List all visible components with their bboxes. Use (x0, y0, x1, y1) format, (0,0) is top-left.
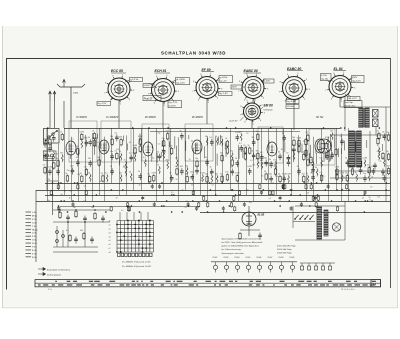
svg-text:5k: 5k (377, 145, 379, 147)
resistor R23 (162, 138, 165, 148)
svg-text:5k: 5k (67, 154, 69, 156)
capacitor C14 (115, 132, 119, 141)
parts table (35, 280, 381, 287)
svg-text:100: 100 (292, 137, 295, 139)
svg-text:30: 30 (219, 144, 221, 146)
resistor R37 (243, 145, 246, 155)
wire bus F (60, 206, 200, 208)
capacitor C18 (162, 146, 167, 155)
resistor R44 (278, 173, 281, 183)
callout V1 below (97, 97, 113, 106)
resistor R22 (152, 173, 157, 183)
callout V3 right (215, 76, 233, 83)
coil L27 (165, 160, 168, 170)
svg-text:100: 100 (190, 172, 193, 174)
resistor R35 (230, 157, 233, 167)
svg-text:Spannungen entstanden.: Spannungen entstanden. (222, 252, 245, 255)
IF transformer box T3 (142, 124, 169, 161)
coil L62 (330, 131, 333, 141)
svg-text:25p: 25p (43, 151, 46, 153)
wire midband verticals (52, 133, 382, 168)
capacitor C10 (88, 137, 92, 146)
svg-text:4f 460 kHz Folge: 4f 460 kHz Folge (277, 249, 292, 251)
svg-text:25p: 25p (345, 173, 348, 175)
svg-text:2k: 2k (48, 136, 50, 138)
svg-text:25p: 25p (162, 138, 165, 140)
svg-text:F 3a: F 3a (32, 236, 37, 238)
resistor R5 (60, 131, 63, 141)
svg-text:0,1: 0,1 (306, 132, 309, 134)
callout V1 right (125, 78, 143, 83)
svg-text:30: 30 (139, 184, 141, 186)
wire V6 drop (339, 98, 341, 107)
wire column verticals (48, 128, 349, 201)
svg-text:a1: a1 (109, 224, 111, 226)
svg-text:10n: 10n (249, 202, 252, 204)
svg-text:25p: 25p (303, 141, 306, 143)
wire bus A (45, 183, 390, 185)
svg-text:100: 100 (225, 172, 228, 174)
svg-text:50: 50 (205, 136, 207, 138)
resistor R28 (195, 158, 198, 168)
svg-text:g1 0,9Vtt: g1 0,9Vtt (176, 78, 185, 81)
label EL 84 (334, 67, 347, 71)
resistor R24 (165, 131, 168, 141)
callout V5 below b (286, 105, 299, 109)
resistor R1 (43, 165, 46, 175)
svg-text:50: 50 (243, 145, 245, 147)
svg-text:0,5: 0,5 (129, 142, 132, 144)
left legend arrow a (38, 268, 71, 272)
capacitor C36 (269, 174, 273, 183)
svg-text:2k: 2k (191, 185, 193, 187)
capacitor C34 (260, 152, 264, 161)
coil L18 (124, 159, 127, 169)
svg-text:30: 30 (370, 186, 372, 188)
coil L38 (220, 137, 223, 147)
wire bus D (36, 201, 390, 203)
resistor R9 (80, 173, 83, 183)
capacitor C6 (56, 166, 60, 175)
tube element U2 (99, 140, 109, 154)
capacitor C45 (311, 165, 315, 174)
table end cell (371, 280, 381, 287)
resistor R53 (335, 171, 338, 181)
svg-text:100: 100 (180, 166, 183, 168)
svg-text:0,5Vtt/cm: 0,5Vtt/cm (264, 108, 273, 111)
coil L50 (273, 159, 276, 169)
svg-text:50: 50 (52, 150, 54, 152)
svg-text:4,7Vtt: 4,7Vtt (321, 74, 327, 77)
switch matrix risers (120, 212, 148, 221)
wire bus C (45, 195, 390, 197)
coil L18 (124, 167, 129, 177)
table footnote (48, 289, 355, 291)
coil L70 (367, 172, 370, 182)
capacitor C19 (169, 173, 173, 182)
svg-text:5k: 5k (282, 133, 284, 135)
svg-text:0,25Vtt: 0,25Vtt (169, 104, 176, 107)
IF transformer box T4 (185, 124, 213, 161)
svg-text:2k: 2k (189, 159, 191, 161)
resistor R7 (76, 146, 79, 156)
svg-text:0,5M: 0,5M (297, 138, 302, 140)
resistor R46 (297, 138, 302, 148)
svg-text:0,5M: 0,5M (48, 166, 53, 168)
resistor R16 (115, 150, 118, 160)
svg-text:25p: 25p (158, 133, 161, 135)
callout V7 left (229, 117, 244, 122)
tube element U3 (143, 142, 153, 156)
resistor R6 (65, 173, 68, 183)
svg-text:5k: 5k (162, 150, 164, 152)
svg-text:5k: 5k (65, 173, 67, 175)
capacitor C49 (340, 136, 344, 145)
svg-text:E 3a: E 3a (32, 250, 37, 252)
callout V6 below (345, 94, 360, 101)
capacitor C20 (180, 131, 184, 140)
resistor R58 (367, 165, 370, 175)
svg-text:100: 100 (43, 139, 46, 141)
tube socket V4 EABC80 (238, 73, 269, 104)
svg-text:5k: 5k (220, 173, 222, 175)
svg-text:50: 50 (251, 150, 253, 152)
svg-text:0,8Vtt: 0,8Vtt (144, 84, 150, 87)
svg-text:50: 50 (382, 131, 384, 133)
grid note line 1 (121, 261, 151, 264)
svg-text:5k: 5k (311, 173, 313, 175)
coil L72 (377, 145, 380, 155)
svg-text:0,1: 0,1 (115, 132, 118, 134)
right resistor column (305, 137, 385, 176)
svg-text:30: 30 (281, 149, 283, 151)
svg-text:5k: 5k (88, 137, 90, 139)
svg-text:3f = 460kHz 3f Quarzab. 3a 3: 3f = 460kHz 3f Quarzab. 3a 31f (122, 265, 151, 268)
coil L69 (363, 158, 368, 168)
svg-text:bei 220V~ Netz (Volt) gemessen: bei 220V~ Netz (Volt) gemessen. Abtastwe… (222, 241, 264, 244)
svg-text:25p: 25p (342, 177, 345, 179)
svg-text:5k: 5k (200, 180, 202, 182)
resistor R48 (302, 151, 305, 161)
svg-text:100: 100 (119, 137, 122, 139)
capacitor C28 (235, 132, 240, 141)
coil L10 (88, 172, 91, 182)
coil L17 (119, 151, 122, 161)
coil L35 (205, 136, 208, 146)
svg-text:0,5: 0,5 (71, 138, 74, 140)
svg-text:30: 30 (85, 137, 87, 139)
coil L25 (157, 165, 160, 175)
section label ZF 468kHz (144, 116, 157, 119)
svg-text:SCHALTPLAN 3043 W/3D: SCHALTPLAN 3043 W/3D (161, 50, 226, 55)
svg-text:1M: 1M (251, 137, 254, 139)
resistor R12 (92, 131, 95, 141)
callout V2 below (168, 101, 182, 108)
resistor R45 (292, 137, 295, 147)
svg-text:Ug -6,2V: Ug -6,2V (348, 98, 357, 100)
switch matrix grid (109, 220, 154, 254)
svg-text:10n: 10n (269, 174, 272, 176)
resistor R4 (56, 158, 59, 168)
resistor R59 (377, 131, 380, 141)
capacitor C11 (88, 158, 92, 167)
resistor R30 (220, 173, 223, 183)
svg-text:0,5: 0,5 (269, 198, 272, 200)
svg-text:50: 50 (235, 158, 237, 160)
callout V6 left (321, 74, 335, 83)
svg-text:25p: 25p (363, 173, 366, 175)
resistor R20 (138, 143, 141, 153)
svg-text:5k: 5k (210, 167, 212, 169)
capacitor C13 (110, 166, 114, 175)
section label ZF 468kHz (191, 116, 204, 119)
svg-text:NF Teil: NF Teil (316, 117, 324, 119)
svg-text:2k: 2k (380, 161, 382, 163)
capacitor C54 (371, 166, 375, 175)
svg-text:50: 50 (56, 154, 58, 156)
title SCHALTPLAN 3043 W/3D (161, 50, 226, 55)
svg-text:5k: 5k (269, 159, 271, 161)
capacitor C32 (251, 137, 255, 146)
svg-text:25p: 25p (195, 158, 198, 160)
svg-text:0,1: 0,1 (377, 131, 380, 133)
svg-text:30: 30 (291, 149, 293, 151)
svg-text:10n: 10n (264, 158, 267, 160)
tube socket V3 EF89 (192, 73, 223, 104)
svg-text:2k: 2k (43, 165, 45, 167)
svg-text:5k: 5k (157, 151, 159, 153)
svg-text:Ug -1,1V: Ug -1,1V (169, 102, 178, 104)
resistor R49 (302, 173, 305, 183)
capacitor C33 (251, 150, 255, 159)
capacitor C2 (43, 139, 47, 148)
svg-text:5k: 5k (100, 181, 102, 183)
svg-text:50: 50 (306, 157, 308, 159)
svg-text:G 3a: G 3a (32, 240, 38, 242)
resistor R27 (185, 174, 188, 184)
svg-text:ECC 85: ECC 85 (111, 69, 123, 73)
svg-text:25p: 25p (286, 157, 289, 159)
resistor R60 (386, 151, 389, 161)
label ECC 85 (111, 69, 126, 73)
capacitor C16 (138, 171, 142, 180)
resistor R32 (225, 145, 228, 155)
filter capacitor row (211, 257, 297, 273)
resistor R19 (138, 136, 143, 146)
svg-text:10n: 10n (319, 157, 322, 159)
tube element U4 (192, 140, 202, 154)
capacitor C7 (70, 166, 74, 175)
svg-text:5k: 5k (256, 131, 258, 133)
svg-text:Ug -4,3V: Ug -4,3V (287, 101, 296, 103)
coil L20 (133, 152, 138, 162)
capacitor C37 (269, 159, 273, 168)
resistor R10 (84, 167, 87, 177)
callout V3 below (214, 90, 232, 96)
coil L61 (325, 144, 328, 154)
svg-text:10k: 10k (91, 207, 94, 209)
svg-text:a4: a4 (109, 236, 111, 238)
legend sub block (277, 245, 296, 254)
svg-text:1,4Vtt: 1,4Vtt (264, 80, 270, 83)
coil L14 (105, 173, 108, 183)
capacitor C5 (52, 133, 56, 142)
resistor R61 (386, 132, 389, 142)
resistor R8 (80, 131, 85, 141)
svg-text:Vo 1600kHz: Vo 1600kHz (106, 117, 119, 119)
svg-text:50k: 50k (80, 230, 83, 232)
resistor R31 (220, 153, 223, 163)
capacitor C30 (239, 143, 243, 152)
wire V3 drop (206, 99, 208, 124)
coil L37 (215, 136, 218, 146)
svg-text:0,5M: 0,5M (235, 173, 240, 175)
capacitor C39 (282, 173, 287, 182)
section label Vo 500kHz (76, 117, 88, 119)
svg-text:0,5M: 0,5M (297, 144, 302, 146)
capacitor C41 (286, 153, 290, 162)
svg-text:C5403: C5403 (223, 257, 228, 259)
svg-text:50: 50 (52, 133, 54, 135)
svg-text:5k: 5k (248, 145, 250, 147)
svg-text:50: 50 (119, 151, 121, 153)
resistor R17 (119, 137, 122, 147)
capacitor C46 (311, 172, 315, 181)
svg-text:10n: 10n (273, 159, 276, 161)
svg-text:0,5M: 0,5M (195, 166, 200, 168)
svg-text:TA 3a: TA 3a (32, 228, 38, 231)
svg-text:0,5: 0,5 (250, 160, 253, 162)
resistor R14 (101, 173, 104, 183)
svg-text:Ug -6V: Ug -6V (321, 78, 328, 80)
svg-text:0,5: 0,5 (152, 158, 155, 160)
svg-text:Spannungen mit Ronvolt-Messins: Spannungen mit Ronvolt-Messinstrumenten (222, 237, 263, 240)
svg-text:50: 50 (362, 198, 364, 200)
coil L73 (382, 157, 385, 167)
capacitor C24 (205, 157, 209, 166)
svg-text:g 4,6Vtt: g 4,6Vtt (220, 76, 228, 79)
mains transformer Tr2 (349, 131, 361, 167)
resistor R36 (235, 173, 240, 183)
resistor R62 (386, 166, 389, 176)
svg-text:S 3a: S 3a (32, 253, 37, 255)
svg-text:C5408: C5408 (278, 257, 283, 259)
capacitor C43 (292, 144, 296, 153)
capacitor C4 (48, 166, 53, 175)
wire bus E (200, 212, 390, 214)
coil L54 (292, 151, 295, 161)
callout V4 right (261, 79, 274, 83)
svg-text:5k: 5k (369, 197, 371, 199)
capacitor C48 (330, 150, 334, 159)
cluster lower-left extra (53, 207, 110, 247)
tube V9 rect/EZ (317, 139, 331, 162)
resistor R41 (256, 131, 259, 141)
midband value labels (47, 133, 385, 212)
svg-text:0,1: 0,1 (211, 185, 214, 187)
svg-text:8n: 8n (64, 191, 66, 193)
coil L42 (239, 132, 242, 142)
wire V2 drop (162, 102, 164, 128)
callout V5 below a (286, 100, 299, 104)
capacitor C56 (382, 173, 386, 182)
capacitor C42 (286, 157, 290, 166)
svg-text:25p: 25p (386, 132, 389, 134)
capacitor C21 (180, 166, 184, 175)
svg-text:1M: 1M (260, 152, 263, 154)
svg-text:EL95: EL95 (258, 212, 265, 216)
filter row right (300, 263, 335, 270)
svg-text:a0: a0 (109, 221, 111, 223)
label antenna 240ohm (73, 91, 79, 94)
svg-text:0,5: 0,5 (158, 144, 161, 146)
svg-text:12,5Vtt: 12,5Vtt (287, 105, 294, 108)
svg-text:25p: 25p (302, 173, 305, 175)
capacitor C47 (325, 151, 330, 160)
callout V2 left (143, 84, 157, 89)
svg-text:8n: 8n (116, 198, 118, 200)
pilot lamp (332, 223, 340, 231)
resistor R52 (319, 172, 322, 182)
svg-text:2k: 2k (193, 191, 195, 193)
coil L46 (256, 159, 259, 169)
left legend arrow b (38, 273, 62, 277)
svg-text:25p: 25p (256, 159, 259, 161)
wire antenna to bus (47, 80, 65, 191)
svg-text:C5409: C5409 (289, 257, 294, 259)
tube socket V1 ECC85 (104, 75, 135, 106)
svg-text:D 3a: D 3a (32, 233, 37, 235)
svg-text:5k: 5k (355, 172, 357, 174)
svg-text:25p: 25p (77, 174, 80, 176)
inter-bus components (50, 184, 366, 212)
switch matrix pads (118, 253, 152, 256)
svg-text:50: 50 (246, 133, 248, 135)
svg-text:50: 50 (176, 179, 178, 181)
coil L19 (129, 171, 132, 181)
resistor R55 (345, 173, 348, 183)
capacitor C38 (278, 151, 282, 160)
resistor R11 (92, 138, 95, 148)
wire V5 drop (293, 100, 295, 130)
coil L53 (286, 174, 291, 184)
svg-text:a2: a2 (109, 228, 111, 230)
svg-text:2k: 2k (138, 171, 140, 173)
svg-text:EABC 80: EABC 80 (287, 67, 301, 71)
resistor R39 (248, 145, 251, 155)
svg-text:50: 50 (129, 171, 131, 173)
svg-text:M 3a: M 3a (32, 215, 38, 217)
IF transformer box T6 (309, 129, 335, 165)
svg-text:26Vtt: 26Vtt (232, 86, 237, 89)
capacitor C44 (297, 166, 301, 175)
capacitor C26 (210, 167, 214, 176)
svg-text:1M: 1M (256, 151, 259, 153)
left terminal column (26, 212, 39, 259)
svg-text:Bedienplatte mit Betriebssp.: Bedienplatte mit Betriebssp. (47, 268, 71, 271)
capacitor C50 (345, 157, 349, 166)
schematic border frame (6, 58, 391, 290)
svg-text:EM 80: EM 80 (264, 104, 273, 108)
svg-text:0,5: 0,5 (322, 176, 325, 178)
svg-text:50: 50 (101, 173, 103, 175)
antenna input switch box (44, 129, 60, 151)
IF transformer box T5 (258, 127, 283, 163)
svg-text:50: 50 (286, 153, 288, 155)
resistor R43 (273, 166, 276, 176)
coil L4 (60, 153, 63, 163)
resistor R33 (225, 172, 228, 182)
